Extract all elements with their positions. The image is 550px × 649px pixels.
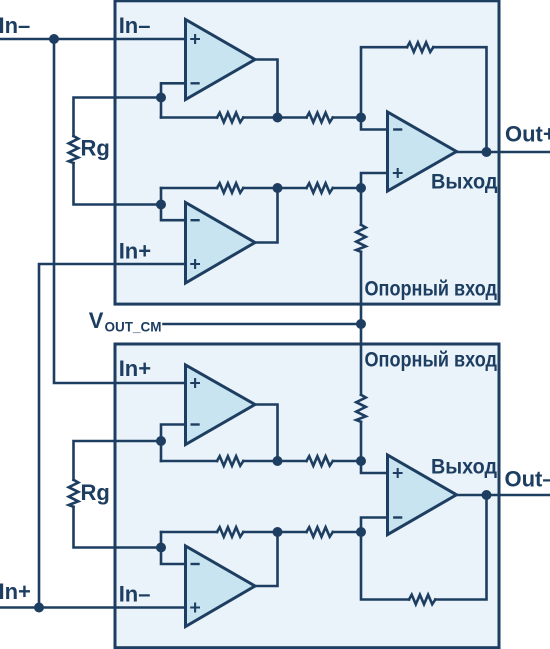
wire A4 minus input	[161, 532, 186, 564]
svg-text:In+: In+	[119, 239, 151, 264]
wire U2 feedback loop	[361, 532, 409, 600]
resistor R6	[217, 456, 243, 466]
wire In+ rail to upper block In+ pin	[39, 264, 186, 608]
node A2 out	[273, 183, 283, 193]
wire U2 minus input	[361, 518, 388, 533]
resistor R3 feedback	[407, 42, 433, 52]
resistor R9	[307, 527, 333, 537]
node A4 out	[273, 527, 283, 537]
A3 plus marker	[190, 378, 200, 388]
wire A3 output	[255, 405, 278, 462]
node U1 plus	[356, 183, 366, 193]
op-amp A2	[186, 203, 256, 284]
node A1 out	[273, 113, 283, 123]
wire Vcm	[164, 323, 362, 326]
wire A2 minus input	[161, 188, 186, 220]
resistor R10 feedback	[409, 595, 435, 605]
wire R7 to U2 plus node	[333, 460, 361, 463]
wire A4 output	[255, 532, 278, 586]
U1 minus marker	[393, 128, 402, 130]
svg-text:Опорный вход: Опорный вход	[365, 278, 498, 301]
wire reference 2 to U2 plus node	[360, 422, 363, 461]
U1 plus marker	[393, 168, 403, 178]
wire In- input	[0, 38, 186, 41]
svg-text:In+: In+	[119, 356, 151, 381]
A1 minus marker	[191, 82, 200, 84]
wire feedback to output	[433, 47, 486, 152]
wire A4 feedback row	[161, 531, 217, 534]
svg-text:OUT_CM: OUT_CM	[105, 320, 162, 335]
wire A3 minus input	[161, 425, 186, 462]
node A3 out	[273, 456, 283, 466]
U2 minus marker	[393, 516, 402, 518]
node U2 minus	[356, 527, 366, 537]
wire A1 output	[255, 60, 278, 118]
node U1 minus	[356, 113, 366, 123]
wire U1 feedback loop	[361, 47, 407, 117]
resistor Rg1	[69, 136, 79, 163]
resistor Rref2	[356, 395, 366, 422]
A4 minus marker	[191, 563, 200, 565]
resistor Rg2	[69, 480, 79, 507]
wire R4 to node	[243, 187, 306, 190]
A4 plus marker	[190, 603, 200, 613]
resistor R8	[217, 527, 243, 537]
wire Rg2 bottom	[74, 507, 162, 548]
wire U1 minus input	[361, 118, 388, 130]
wire reference resistor top leg	[360, 188, 363, 225]
wire A3 output row	[161, 460, 217, 463]
wire R6 to node	[243, 460, 306, 463]
wire U2 output Out-	[457, 494, 550, 497]
wire U2 plus input	[361, 461, 388, 473]
wire A2 output row	[161, 187, 217, 190]
node U2 out	[482, 490, 492, 500]
wire Rg1 top	[74, 98, 162, 137]
A2 plus marker	[190, 259, 200, 269]
wire R5 to U1 plus node	[333, 187, 361, 190]
svg-text:Выход: Выход	[431, 171, 498, 194]
svg-text:In–: In–	[119, 13, 151, 38]
wire Rg1 bottom	[74, 163, 162, 205]
U2 plus marker	[393, 468, 403, 478]
resistor Rref1	[356, 225, 366, 252]
resistor R7	[307, 456, 333, 466]
wire R2 to U1 minus node	[333, 116, 361, 119]
resistor R2	[307, 113, 333, 123]
node N1	[156, 93, 166, 103]
wire feedback 2 to output	[435, 495, 486, 600]
svg-text:In+: In+	[0, 579, 31, 604]
node N2	[156, 200, 166, 210]
svg-text:Out–: Out–	[505, 467, 550, 492]
node U1 out	[482, 147, 492, 157]
node N4	[156, 543, 166, 553]
op-amp U1	[388, 112, 457, 191]
node In+ junction	[34, 603, 44, 613]
svg-text:Rg: Rg	[81, 480, 110, 505]
wire U1 plus input	[361, 173, 388, 188]
op-amp A3	[186, 365, 256, 445]
resistor R5	[307, 183, 333, 193]
wire A1 minus input	[161, 83, 186, 117]
node Vcm	[356, 319, 366, 329]
wire A1 feedback row	[161, 116, 217, 119]
op-amp U2	[388, 455, 457, 535]
svg-text:V: V	[89, 308, 104, 333]
resistor R4	[217, 183, 243, 193]
wire R9 to U2 minus node	[333, 531, 361, 534]
A3 minus marker	[191, 423, 200, 425]
svg-text:Out+: Out+	[505, 122, 550, 147]
wire In- rail to lower block In+ pin	[54, 39, 186, 383]
node U2 plus	[356, 456, 366, 466]
svg-text:Выход: Выход	[431, 456, 497, 479]
in-amp block 1 (top)	[115, 1, 499, 304]
wire reference to Vcm node	[360, 252, 363, 324]
node N3	[156, 436, 166, 446]
node In- junction	[49, 34, 59, 44]
op-amp A4	[186, 546, 256, 627]
in-amp block 2 (bottom)	[115, 344, 499, 648]
wire R8 to node	[243, 531, 306, 534]
wire U1 output Out+	[457, 151, 550, 154]
wire A2 output	[255, 188, 278, 243]
svg-text:Rg: Rg	[81, 136, 110, 161]
wire In+ input	[0, 606, 186, 609]
op-amp A1	[186, 20, 256, 100]
A1 plus marker	[190, 34, 200, 44]
svg-text:In–: In–	[0, 13, 30, 38]
resistor R1	[217, 113, 243, 123]
wire reference resistor 2 top leg	[360, 324, 363, 395]
wire R1 to node	[243, 116, 306, 119]
svg-text:In–: In–	[119, 582, 151, 607]
svg-text:Опорный вход: Опорный вход	[365, 349, 498, 372]
wire Rg2 top	[74, 441, 162, 480]
A2 minus marker	[191, 219, 200, 221]
